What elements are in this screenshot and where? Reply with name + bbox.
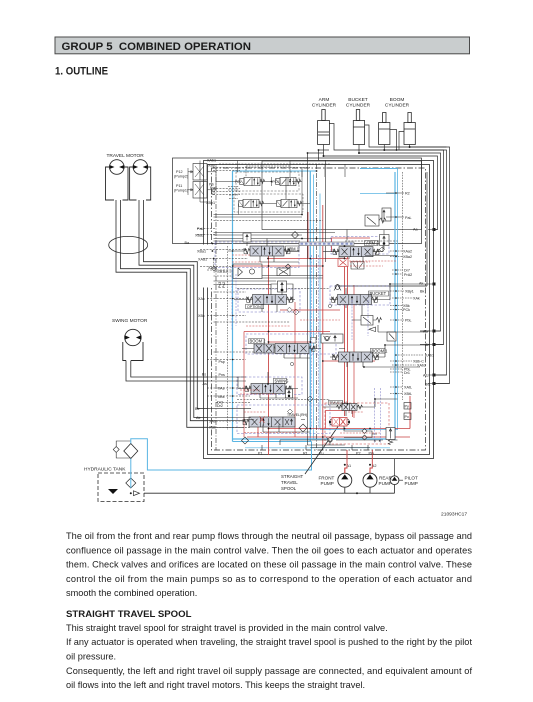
swing dashed box bbox=[237, 377, 302, 395]
straight travel spool bbox=[332, 418, 347, 427]
svg-text:Btr: Btr bbox=[195, 407, 200, 411]
travel motor right box bbox=[130, 167, 151, 200]
left pilot dashed vertical bbox=[214, 246, 228, 430]
svg-text:KAb1: KAb1 bbox=[425, 354, 434, 358]
svg-text:Psp: Psp bbox=[219, 360, 225, 364]
cyan center risers bbox=[309, 171, 311, 442]
label boxes bbox=[246, 241, 389, 405]
tank return arrow bbox=[108, 489, 118, 494]
travel rh diamond bbox=[288, 409, 293, 414]
svg-text:XAa1: XAa1 bbox=[198, 258, 207, 262]
svg-text:TRAVEL(LH): TRAVEL(LH) bbox=[329, 401, 347, 405]
svg-text:This straight travel spool for: This straight travel spool for straight … bbox=[66, 623, 388, 633]
pilot filter bypass check bbox=[113, 447, 119, 453]
right bus entry ticks bbox=[428, 230, 450, 384]
svg-text:Pu: Pu bbox=[319, 452, 324, 456]
left stub dots bbox=[212, 243, 234, 397]
svg-text:XAb1: XAb1 bbox=[207, 159, 216, 163]
straight travel outlet wires bbox=[344, 426, 381, 442]
pal relief valve bbox=[365, 208, 391, 226]
section staircase right bbox=[338, 172, 430, 345]
svg-text:control the oil from the main: control the oil from the main pumps so a… bbox=[66, 574, 472, 584]
boom1 leads bbox=[330, 345, 428, 367]
svg-text:oil pressure.: oil pressure. bbox=[66, 652, 116, 662]
arm2 work lines bbox=[338, 256, 398, 259]
svg-text:Ak: Ak bbox=[419, 282, 423, 286]
travel lh spool bbox=[337, 404, 363, 411]
svg-text:Px: Px bbox=[405, 415, 409, 419]
swing port relief bbox=[286, 389, 293, 398]
confluence red riser bbox=[243, 332, 245, 438]
px port box bbox=[404, 413, 411, 420]
svg-text:N2: N2 bbox=[211, 192, 215, 196]
option feed lines bbox=[214, 281, 277, 285]
svg-text:PCV: PCV bbox=[273, 180, 280, 184]
svg-text:Bb: Bb bbox=[425, 343, 430, 347]
bypass valve 2 bbox=[277, 199, 302, 207]
svg-text:XBy1: XBy1 bbox=[405, 290, 414, 294]
pilot filter bbox=[124, 444, 138, 459]
svg-text:PbL: PbL bbox=[405, 319, 412, 323]
svg-text:PUMP: PUMP bbox=[379, 481, 392, 486]
travel motor right bbox=[133, 160, 148, 175]
arm2 check relief bbox=[380, 230, 390, 249]
swing spool bbox=[245, 384, 291, 394]
py port box bbox=[404, 403, 411, 410]
straight travel pilot caps bbox=[329, 419, 350, 425]
svg-text:If any actuator is operated wh: If any actuator is operated when traveli… bbox=[66, 637, 472, 647]
cyan pilot supply frame left bbox=[232, 171, 234, 442]
option red lines bbox=[280, 302, 340, 332]
pump regulator P11 bbox=[191, 182, 207, 199]
svg-text:Ptb: Ptb bbox=[209, 183, 214, 187]
pilot return line bbox=[131, 439, 312, 470]
straight travel dashed box red bbox=[325, 403, 389, 444]
svg-text:PUMP: PUMP bbox=[321, 481, 334, 486]
red bottom frame bbox=[247, 429, 410, 438]
svg-text:XBc: XBc bbox=[198, 314, 205, 318]
svg-text:ARM: ARM bbox=[319, 97, 330, 103]
straight travel spool label bbox=[281, 474, 304, 491]
svg-text:Dr7: Dr7 bbox=[404, 269, 410, 273]
svg-text:Dr1u: Dr1u bbox=[219, 270, 227, 274]
rear pump delivery bbox=[369, 468, 371, 473]
svg-text:XBp2: XBp2 bbox=[208, 164, 217, 168]
pilot pump riser bbox=[394, 459, 396, 476]
suction line bbox=[144, 492, 395, 494]
boom2 aux block bbox=[254, 344, 274, 353]
svg-text:SWING MOTOR: SWING MOTOR bbox=[112, 318, 148, 324]
front pump delivery bbox=[344, 468, 346, 473]
svg-text:XBtr: XBtr bbox=[209, 426, 217, 430]
swing motor bbox=[125, 329, 141, 345]
boom2 dashed box bbox=[246, 334, 336, 354]
arm pilot valve red bbox=[338, 259, 348, 267]
option port relief bbox=[271, 281, 293, 302]
red boom2 riser extension bbox=[294, 332, 296, 438]
red center upper riser bbox=[307, 212, 309, 259]
svg-text:21093HC17: 21093HC17 bbox=[441, 512, 467, 518]
svg-text:PCk: PCk bbox=[403, 308, 410, 312]
svg-text:Dr1: Dr1 bbox=[404, 371, 410, 375]
svg-text:FRONT: FRONT bbox=[319, 476, 335, 481]
svg-text:PrA2: PrA2 bbox=[404, 273, 412, 277]
svg-text:PUMP: PUMP bbox=[405, 481, 418, 486]
svg-text:PILOT: PILOT bbox=[405, 476, 418, 481]
red horizontal option row bbox=[244, 331, 330, 333]
arm2 leads bbox=[323, 230, 383, 262]
pump box verticals bbox=[286, 164, 345, 199]
cyan pilot supply frame right bbox=[233, 172, 396, 439]
neutral passage bottom bbox=[307, 445, 370, 448]
arm1 top relief valve bbox=[243, 233, 251, 246]
svg-text:HYDRAULIC TANK: HYDRAULIC TANK bbox=[84, 467, 126, 473]
svg-text:ARM 2: ARM 2 bbox=[366, 241, 379, 246]
svg-text:XAk: XAk bbox=[413, 297, 420, 301]
bucket relief leads bbox=[352, 320, 428, 332]
pump suction stubs bbox=[345, 485, 395, 493]
neutral line horizontals bbox=[214, 233, 336, 400]
PCV valve 2 bbox=[276, 177, 301, 185]
travel rh spool bbox=[243, 417, 289, 427]
svg-text:BUCKET: BUCKET bbox=[348, 97, 368, 103]
svg-text:OPTION: OPTION bbox=[247, 305, 261, 309]
straight travel red frame bbox=[326, 411, 353, 429]
svg-text:STRAIGHT: STRAIGHT bbox=[281, 474, 304, 479]
pilot valve dashed boxes bbox=[234, 172, 303, 212]
svg-text:BtL: BtL bbox=[425, 383, 431, 387]
front pump bbox=[338, 473, 352, 487]
bucket anti-cavitation check bbox=[334, 285, 341, 291]
svg-text:Ab: Ab bbox=[423, 330, 428, 334]
neutral passage striped bar bbox=[299, 242, 354, 246]
red pilot line left riser bbox=[268, 250, 270, 455]
orifice marks bbox=[212, 247, 385, 402]
arm section box bbox=[262, 161, 422, 230]
swing lines bbox=[126, 361, 208, 382]
arm2 spool bbox=[333, 247, 379, 257]
svg-text:PaL: PaL bbox=[197, 227, 204, 231]
svg-text:(Pump1): (Pump1) bbox=[174, 189, 188, 193]
blue pilot dashed verticals bbox=[232, 255, 368, 430]
border gap patch bbox=[202, 245, 212, 288]
pump regulator P12 bbox=[191, 164, 207, 181]
bucket cylinder bbox=[353, 110, 364, 145]
arm1 leads bbox=[228, 239, 299, 263]
arm1 spool bbox=[244, 246, 290, 256]
header bar bbox=[55, 37, 470, 54]
svg-text:them. Check valves and orifice: them. Check valves and orifices are loca… bbox=[66, 560, 472, 570]
svg-text:BOOM 1: BOOM 1 bbox=[372, 348, 389, 353]
main control valve outer box bbox=[204, 161, 434, 459]
regulator extra wires bbox=[188, 161, 208, 203]
red boom1 riser bbox=[353, 285, 355, 418]
tank outlet arrow bbox=[134, 491, 140, 496]
svg-text:BUCKET: BUCKET bbox=[370, 291, 387, 296]
bucket dashed box bbox=[330, 286, 390, 305]
svg-text:XBtL: XBtL bbox=[404, 392, 412, 396]
pump delivery lines red bbox=[345, 450, 373, 473]
svg-text:smooth the combined operation.: smooth the combined operation. bbox=[66, 588, 197, 598]
svg-text:PaL: PaL bbox=[405, 216, 412, 220]
travel rh dashed box bbox=[237, 405, 330, 434]
bucket spool bbox=[332, 295, 378, 305]
svg-text:(Pump2): (Pump2) bbox=[174, 175, 188, 179]
pilot pump bbox=[390, 476, 399, 485]
boom cylinder 1 bbox=[379, 113, 390, 145]
pilot pump line bbox=[399, 479, 403, 481]
straight travel pointer line bbox=[305, 427, 338, 475]
boom2 leads bbox=[242, 349, 345, 359]
cylinder labels bbox=[312, 97, 410, 109]
svg-text:TRAVEL(RH): TRAVEL(RH) bbox=[287, 413, 307, 417]
pump labels bbox=[319, 464, 418, 486]
bottom center check bbox=[327, 437, 334, 442]
boom cylinder 2 bbox=[404, 113, 415, 145]
arm2 dashed box bbox=[331, 237, 389, 255]
svg-text:As: As bbox=[203, 382, 207, 386]
boom2 spool bbox=[269, 344, 315, 354]
main control valve dash-dot border bbox=[212, 168, 426, 450]
pump control section box bbox=[173, 158, 422, 244]
svg-text:R2: R2 bbox=[405, 192, 410, 196]
svg-text:Atr: Atr bbox=[196, 416, 201, 420]
svg-text:Bs: Bs bbox=[202, 373, 206, 377]
svg-text:XAc: XAc bbox=[198, 297, 205, 301]
filter to tank line bbox=[130, 459, 132, 489]
travel spool red marks bbox=[260, 416, 265, 422]
rear pump bbox=[363, 473, 377, 487]
left port feed lines bbox=[208, 377, 252, 427]
center swivel joint ellipse bbox=[109, 236, 148, 253]
negative control orifice bbox=[242, 424, 308, 444]
swing leads bbox=[238, 372, 298, 398]
dash-dot center risers bbox=[216, 160, 325, 450]
svg-text:CYLINDER: CYLINDER bbox=[346, 103, 371, 109]
pump box dashed rows bbox=[213, 164, 330, 195]
hydraulic tank bbox=[98, 473, 144, 502]
svg-text:R1: R1 bbox=[303, 452, 308, 456]
svg-text:Pns: Pns bbox=[219, 373, 226, 377]
blue dashed verticals travel section bbox=[375, 388, 381, 443]
cyan pilot tank lines bbox=[131, 439, 312, 488]
pump box pilot wires bbox=[207, 161, 398, 242]
svg-text:ARM 1: ARM 1 bbox=[287, 247, 300, 252]
svg-text:PG: PG bbox=[369, 452, 374, 456]
svg-text:Ba: Ba bbox=[185, 241, 190, 245]
bypass valve 1 bbox=[239, 199, 264, 207]
travel rh extra section bbox=[283, 417, 295, 427]
svg-text:Consequently, the left and rig: Consequently, the left and right travel … bbox=[66, 666, 472, 676]
right pilot dashed vertical bbox=[402, 172, 404, 400]
svg-text:CYLINDER: CYLINDER bbox=[385, 103, 410, 109]
svg-text:XBs: XBs bbox=[218, 395, 225, 399]
svg-text:GROUP 5 COMBINED OPERATION: GROUP 5 COMBINED OPERATION bbox=[62, 41, 251, 53]
cyan bottom lines bbox=[233, 441, 312, 443]
svg-text:TRAVEL MOTOR: TRAVEL MOTOR bbox=[107, 153, 145, 159]
svg-text:XAa2: XAa2 bbox=[403, 250, 412, 254]
filter bypass wire bbox=[116, 441, 131, 458]
svg-text:AtL: AtL bbox=[423, 374, 429, 378]
svg-text:XAtr: XAtr bbox=[209, 420, 217, 424]
svg-text:Ps2: Ps2 bbox=[222, 282, 226, 288]
svg-text:oil flows into the left and ri: oil flows into the left and right travel… bbox=[66, 680, 365, 690]
svg-text:XAs: XAs bbox=[218, 386, 225, 390]
bucket port arrow bbox=[369, 327, 376, 332]
svg-text:XAa2: XAa2 bbox=[208, 266, 217, 270]
option red diamond bbox=[287, 307, 292, 312]
PCV valve 1 bbox=[240, 177, 265, 185]
bottom manifold wires bbox=[280, 440, 398, 445]
pra2 reducing valve bbox=[351, 262, 364, 270]
travel lines bbox=[116, 200, 208, 427]
svg-text:XBa2: XBa2 bbox=[195, 234, 204, 238]
svg-text:1. OUTLINE: 1. OUTLINE bbox=[55, 66, 108, 78]
red arm2 frame bbox=[332, 238, 371, 252]
cylinder piping bus bbox=[308, 124, 450, 384]
neutral passage orifice bbox=[311, 338, 317, 344]
travel rh leads bbox=[244, 409, 310, 432]
svg-text:P2: P2 bbox=[356, 452, 361, 456]
boom circuit relief bbox=[387, 332, 396, 341]
svg-text:Py: Py bbox=[405, 405, 409, 409]
svg-text:confluence oil passage in the: confluence oil passage in the main contr… bbox=[66, 545, 472, 555]
svg-text:PCV: PCV bbox=[235, 180, 242, 184]
red pilot dashed lines bbox=[232, 255, 383, 433]
svg-text:P11: P11 bbox=[176, 184, 182, 188]
swing motor box bbox=[123, 342, 143, 361]
red right risers bbox=[344, 246, 346, 416]
svg-text:Bk: Bk bbox=[420, 290, 424, 294]
svg-text:SPOOL: SPOOL bbox=[281, 486, 297, 491]
boom2 check valve bbox=[321, 334, 343, 343]
svg-text:CYLINDER: CYLINDER bbox=[312, 103, 337, 109]
delivery jog bbox=[345, 450, 373, 473]
svg-text:XBa1: XBa1 bbox=[197, 250, 206, 254]
svg-text:SWING: SWING bbox=[275, 378, 289, 383]
svg-text:XAb2: XAb2 bbox=[417, 364, 426, 368]
tank inner filter bbox=[126, 478, 136, 488]
svg-text:P1: P1 bbox=[258, 452, 263, 456]
bucket relief valve bbox=[361, 316, 382, 326]
cyan top feed bbox=[233, 169, 398, 172]
travel motor left bbox=[110, 160, 125, 175]
red horizontal arm1-arm2 bbox=[269, 258, 342, 260]
cyan crossing dots bbox=[395, 192, 397, 394]
svg-text:BOOM 2: BOOM 2 bbox=[250, 339, 267, 344]
red center riser bbox=[322, 205, 324, 445]
pcv labels bbox=[209, 180, 280, 196]
svg-text:XBa2: XBa2 bbox=[403, 255, 412, 259]
svg-text:XAtL: XAtL bbox=[404, 386, 412, 390]
arm1 dashed box bbox=[215, 242, 299, 268]
arm cylinder bbox=[318, 110, 330, 145]
svg-text:Dr2: Dr2 bbox=[217, 404, 223, 408]
bucket leads bbox=[330, 284, 428, 316]
travel motor left box bbox=[106, 167, 129, 200]
main control valve inner box bbox=[208, 165, 430, 455]
svg-text:STRAIGHT TRAVEL SPOOL: STRAIGHT TRAVEL SPOOL bbox=[66, 609, 192, 620]
svg-text:The oil from the front and rea: The oil from the front and rear pump flo… bbox=[66, 531, 472, 541]
svg-text:BOOM: BOOM bbox=[390, 97, 405, 103]
svg-text:P12: P12 bbox=[176, 170, 183, 174]
boom1 spool bbox=[333, 352, 379, 362]
travel lh leads bbox=[323, 399, 398, 416]
svg-text:TRAVEL: TRAVEL bbox=[281, 480, 298, 485]
arm holding check cluster bbox=[233, 232, 299, 279]
bottom right relief bbox=[386, 428, 395, 445]
arm2 red dashed bbox=[346, 260, 397, 262]
option dashed box bbox=[238, 289, 300, 312]
svg-text:XBp1: XBp1 bbox=[206, 201, 215, 205]
option spool bbox=[247, 295, 293, 305]
option leads bbox=[234, 300, 295, 313]
red horizontal boom row bbox=[323, 360, 375, 362]
port dots right border bbox=[433, 228, 436, 385]
